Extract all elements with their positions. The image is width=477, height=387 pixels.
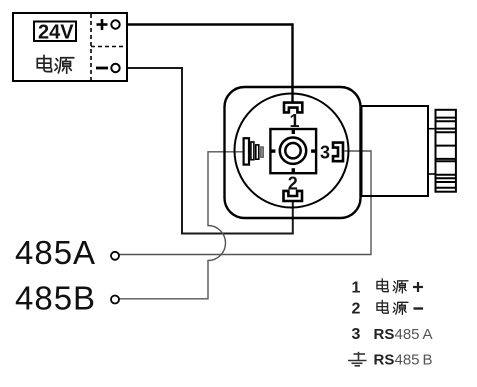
svg-text:485A: 485A [15,234,96,271]
svg-text:2: 2 [352,301,361,318]
svg-text:B: B [423,352,433,369]
svg-text:RS: RS [374,352,395,369]
svg-text:1: 1 [352,279,361,296]
svg-text:3: 3 [320,142,330,162]
svg-text:A: A [423,326,433,343]
svg-text:3: 3 [352,326,361,343]
svg-text:1: 1 [290,111,300,131]
svg-text:24V: 24V [38,22,74,44]
svg-text:485: 485 [395,326,420,343]
svg-text:485B: 485B [15,279,96,316]
svg-text:RS: RS [374,326,395,343]
svg-text:485: 485 [395,352,420,369]
svg-text:2: 2 [288,174,298,194]
